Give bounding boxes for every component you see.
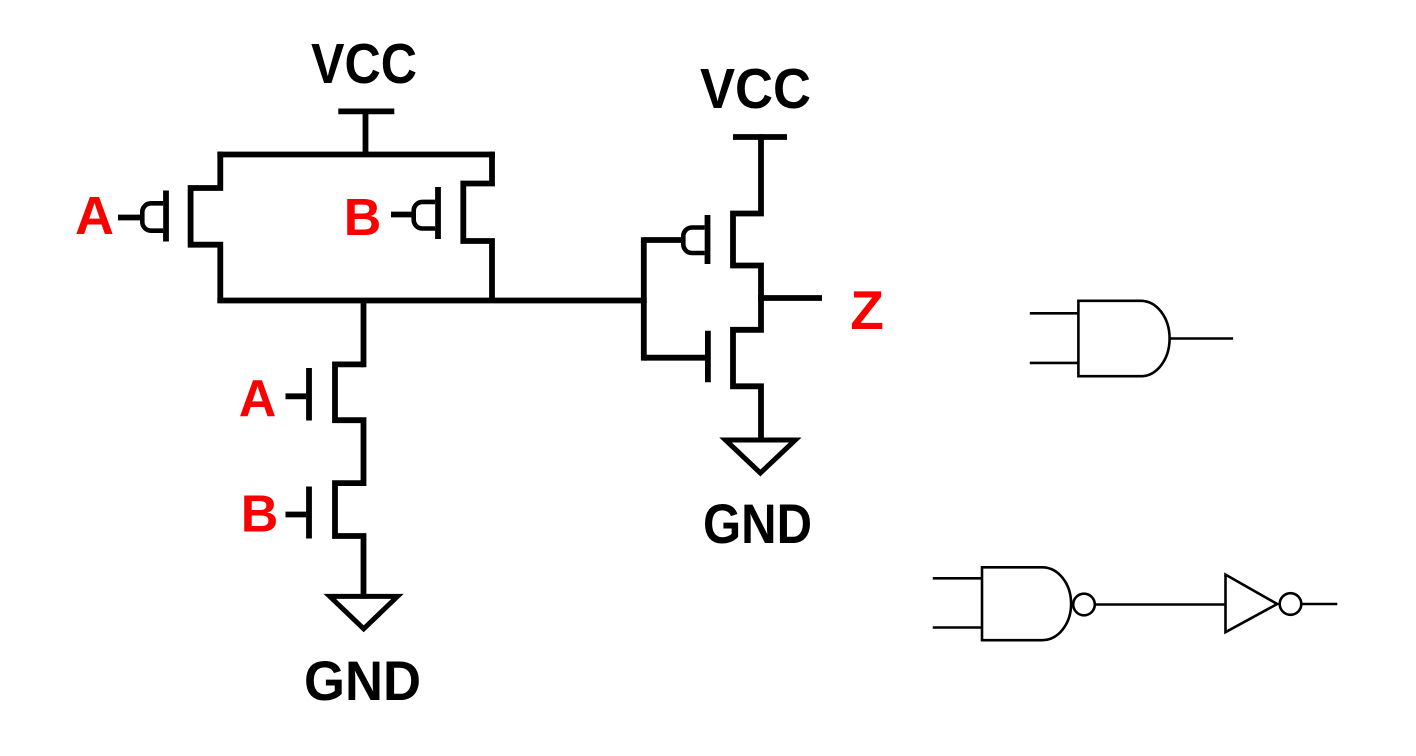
transistor Q2 gate bar: [435, 187, 441, 239]
inverter U3 output wire: [1302, 603, 1338, 606]
wire top source rail: [217, 152, 495, 158]
svg-text:A: A: [239, 370, 277, 428]
AND gate U1 input wire top: [1030, 312, 1079, 315]
wire VCC stub to source rail: [363, 111, 369, 157]
transistor Q2 PMOS B channel/source/drain: [463, 152, 492, 303]
transistor Q5 gate bar: [705, 215, 711, 264]
wire inverter input vertical: [641, 237, 647, 360]
transistor Q1 PMOS A channel/source/drain: [191, 152, 221, 303]
wire NAND to inverter: [1096, 603, 1224, 606]
transistor Q6 NMOS inverter channel/source/drain: [733, 295, 761, 440]
transistor Q1 gate bubble: [142, 203, 163, 230]
wire gate lead A: [118, 215, 150, 221]
transistor Q1 gate bar: [163, 191, 169, 242]
wire bottom drain rail (output of NAND): [217, 298, 646, 304]
AND gate U1 input wire bottom: [1030, 362, 1079, 365]
NAND gate U2 output bubble: [1073, 594, 1095, 616]
transistor Q4 gate bar: [306, 487, 312, 539]
power VCC bar (inverter section): [733, 134, 787, 140]
transistor Q5 PMOS inverter channel/source/drain: [733, 134, 761, 301]
svg-text:A: A: [75, 186, 114, 246]
wire gate lead A (NMOS): [286, 393, 307, 399]
wire gate lead B (NMOS): [286, 512, 307, 518]
svg-text:GND: GND: [703, 492, 812, 555]
wire output node Z: [758, 295, 822, 301]
transistor Q4 NMOS B channel/source/drain: [335, 483, 364, 596]
power VCC bar (NAND section): [338, 109, 394, 115]
wire gate lead NMOS inverter: [644, 355, 705, 361]
inverter U3 output bubble: [1280, 593, 1302, 615]
transistor Q3 NMOS A channel/source/drain: [335, 364, 364, 486]
svg-text:Z: Z: [850, 279, 884, 341]
svg-text:GND: GND: [304, 649, 421, 712]
ground symbol (NAND section): [330, 596, 398, 628]
transistor Q2 gate bubble: [414, 202, 435, 229]
wire gate lead B: [391, 212, 420, 218]
NAND gate U2 input wire bottom: [933, 626, 982, 629]
AND gate U1 body: [1078, 301, 1169, 376]
svg-text:VCC: VCC: [311, 32, 417, 96]
transistor Q5 gate bubble: [683, 228, 704, 254]
inverter U3 triangle: [1226, 575, 1278, 633]
svg-text:B: B: [344, 189, 382, 247]
transistor Q6 gate bar: [705, 331, 711, 383]
wire gate lead to PMOS bubble: [644, 237, 692, 243]
transistor Q3 gate bar: [306, 368, 312, 421]
NAND gate U2 body: [982, 567, 1071, 640]
AND gate U1 output wire: [1170, 337, 1234, 340]
svg-text:VCC: VCC: [700, 57, 811, 121]
NAND gate U2 input wire top: [933, 577, 982, 580]
wire rail to NMOS stack: [361, 301, 367, 368]
svg-text:B: B: [241, 486, 279, 544]
ground symbol (inverter section): [726, 440, 796, 473]
